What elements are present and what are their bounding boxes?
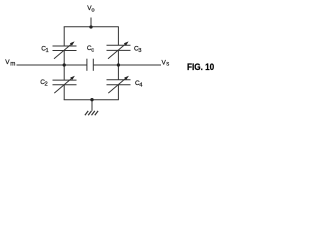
svg-text:c: c (91, 47, 94, 53)
svg-text:3: 3 (138, 48, 141, 54)
svg-text:m: m (10, 61, 15, 68)
svg-text:o: o (91, 7, 94, 13)
svg-text:4: 4 (139, 82, 143, 88)
svg-text:FIG. 10: FIG. 10 (187, 62, 214, 72)
svg-text:1: 1 (46, 48, 49, 54)
svg-text:s: s (166, 61, 169, 67)
svg-text:2: 2 (45, 81, 48, 87)
